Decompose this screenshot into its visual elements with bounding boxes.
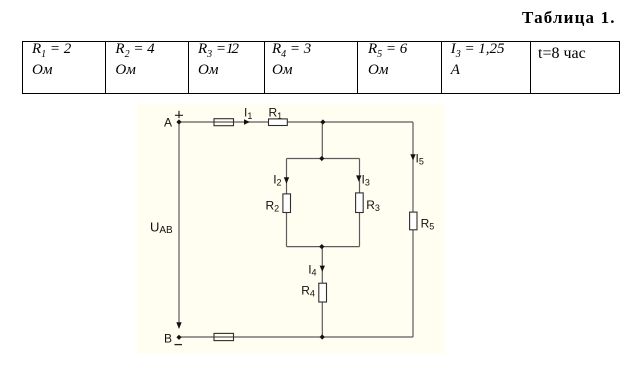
cell R3 value (198, 41, 237, 60)
current arrow I4 (320, 266, 325, 272)
cell R1 value (32, 41, 71, 60)
wire left (A to B) (178, 124, 180, 323)
label R3 (366, 198, 380, 213)
resistor R4 box (319, 283, 327, 302)
label R4 (301, 283, 315, 298)
current arrow I2 (284, 177, 289, 184)
schematic background (137, 104, 445, 354)
table divider 2 (188, 41, 189, 93)
wire parallel loop right branch (359, 159, 361, 247)
current arrow I3 (356, 175, 361, 181)
junction bottom wire (320, 334, 325, 339)
table divider 4 (357, 41, 358, 93)
resistor R1 box (269, 119, 288, 126)
cell R4 value (272, 41, 311, 60)
table divider 6 (530, 41, 531, 93)
resistor (unlabeled) on top wire (214, 119, 234, 126)
label I2 (273, 172, 281, 187)
minus sign at B (175, 344, 183, 346)
svg-text:B: B (164, 332, 172, 346)
junction parallel-bottom (319, 244, 324, 249)
voltage arrow UAB (points to B) (176, 322, 181, 329)
label I1 (244, 106, 252, 121)
label R5 (421, 216, 435, 231)
wire middle lower (parallel group to bottom wire) (321, 247, 323, 337)
data table frame (22, 41, 620, 94)
current arrow I1 (244, 119, 250, 124)
resistor R3 box (356, 193, 364, 213)
wire parallel loop bottom (287, 246, 360, 248)
junction parallel-top (319, 156, 324, 161)
label R2 (266, 198, 280, 213)
svg-text:A: A (164, 116, 172, 130)
label I5 (416, 151, 424, 166)
wire top (A to top-right corner) (181, 121, 413, 123)
resistor R5 box (410, 212, 417, 230)
cell t value (538, 45, 586, 63)
table divider 5 (441, 41, 442, 93)
label I3 (362, 172, 370, 187)
current arrow I5 (410, 154, 415, 160)
wire bottom (B to bottom-right) (181, 336, 413, 338)
label B (164, 332, 172, 346)
plus sign at A (175, 111, 183, 118)
resistor R2 box (283, 194, 291, 213)
resistor (unlabeled) on bottom wire (214, 333, 234, 340)
label I4 (308, 262, 316, 277)
cell R5 value (368, 41, 407, 60)
wire parallel loop top (287, 158, 360, 160)
label A (164, 116, 172, 130)
wire right (top-right to bottom-right) (412, 122, 414, 337)
junction top (above parallel group) (320, 119, 325, 124)
node A dot (176, 119, 181, 124)
label R1 (269, 106, 283, 121)
cell R2 value (115, 41, 154, 60)
node B dot (176, 335, 181, 340)
wire parallel loop left branch (286, 159, 288, 247)
wire middle upper (top junction down to parallel group) (321, 122, 323, 159)
label UAB (150, 219, 173, 236)
table divider 1 (105, 41, 106, 93)
table divider 3 (264, 41, 265, 93)
cell I3 value (451, 41, 505, 60)
caption "Таблица 1." (522, 8, 616, 28)
